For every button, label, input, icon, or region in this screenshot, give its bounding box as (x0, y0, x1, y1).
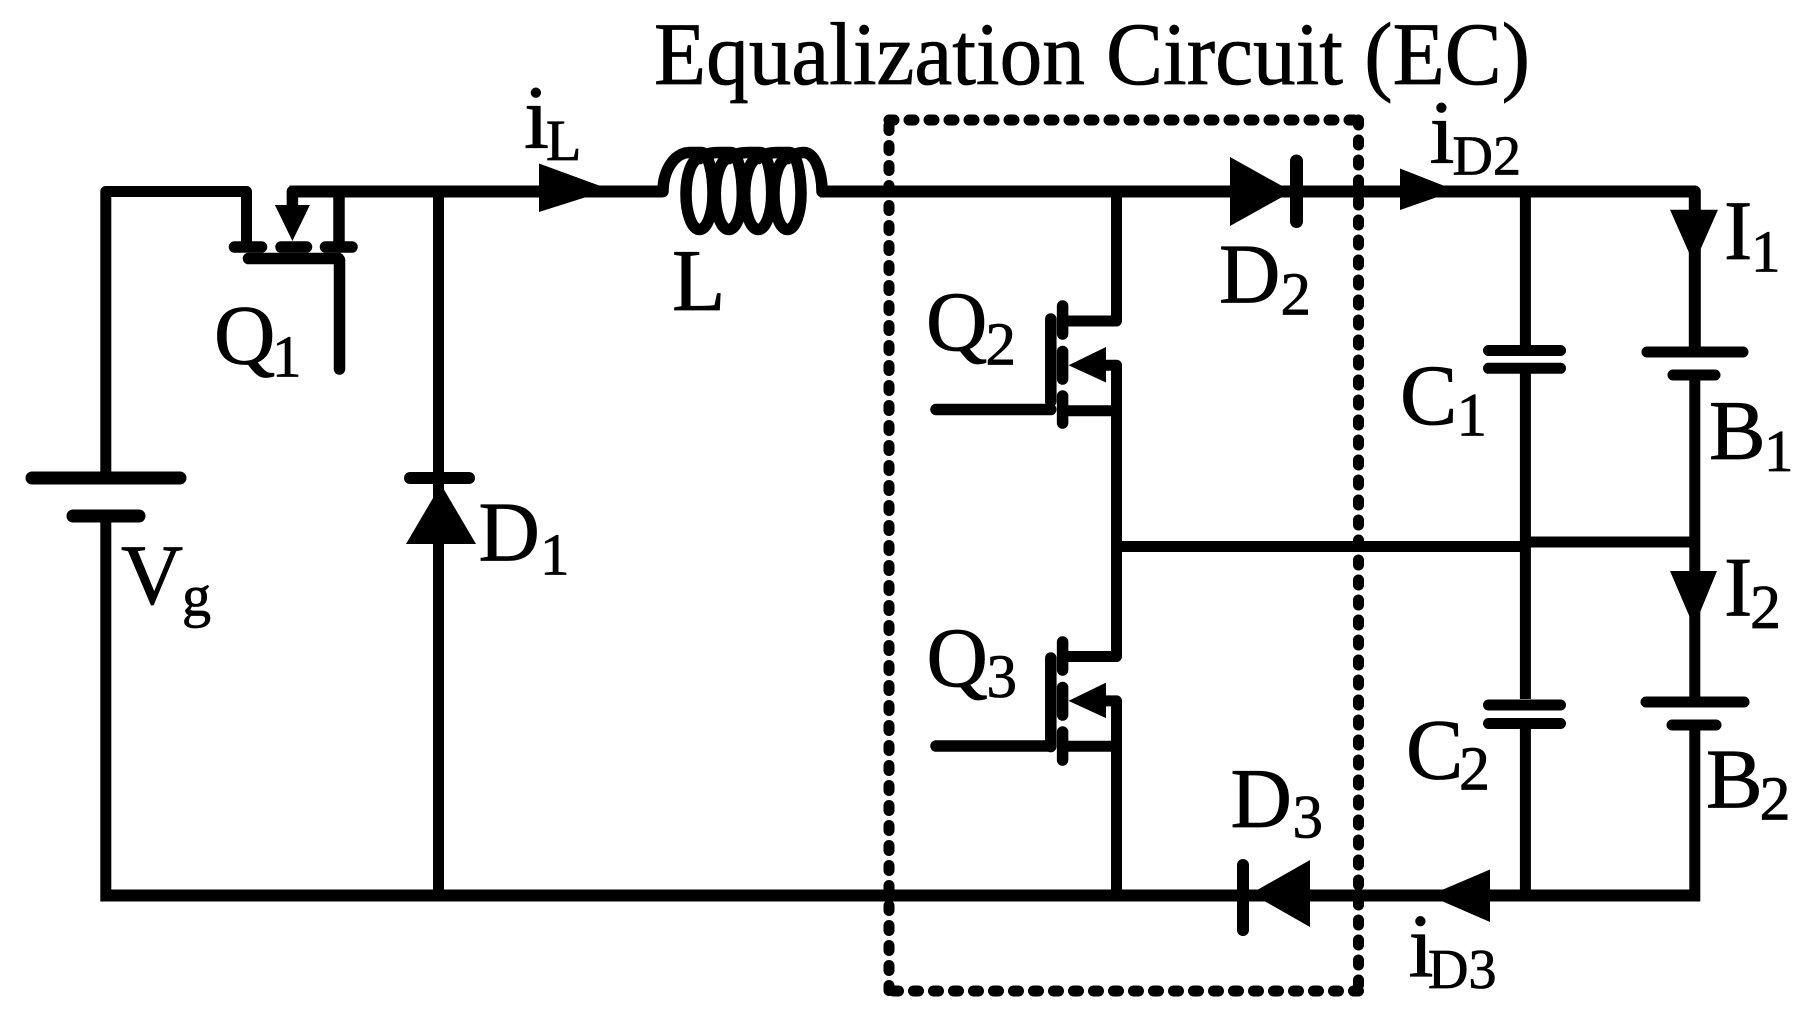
capacitor C1 lower wire to mid node (1520, 373, 1531, 547)
inductor L (663, 152, 822, 229)
svg-text:I: I (1724, 541, 1752, 635)
svg-text:1: 1 (1457, 382, 1488, 449)
wire: B1/I2 junction vertical through mid wire to B2 (1689, 542, 1700, 697)
svg-text:D: D (1231, 752, 1292, 846)
mosfet Q3 source wire down to bottom rail (1063, 746, 1117, 895)
battery Vg (32, 478, 180, 516)
diode D2 (1230, 157, 1292, 226)
svg-text:1: 1 (1764, 418, 1794, 484)
svg-text:I: I (1724, 184, 1752, 278)
svg-text:C: C (1400, 347, 1457, 443)
capacitor C2 (1489, 705, 1561, 724)
svg-text:2: 2 (1281, 262, 1312, 329)
mosfet Q2 (936, 306, 1063, 423)
mosfet Q1 body arrow (275, 205, 310, 241)
mosfet Q2 source wire down to mid node (1063, 411, 1117, 547)
svg-text:D2: D2 (1453, 125, 1521, 187)
svg-text:2: 2 (1459, 736, 1490, 804)
svg-text:C: C (1406, 702, 1463, 798)
capacitor C1 (1489, 351, 1561, 369)
svg-text:i: i (1430, 84, 1455, 183)
capacitor C1 branch wire upper (1520, 192, 1531, 346)
wire: Vg positive to Q1 drain (top-left loop) (106, 192, 247, 475)
capacitor C2 branch wire upper (1520, 542, 1531, 699)
wire: B2 negative down to bottom rail (1689, 730, 1700, 902)
wire: B1 negative to mid node (1689, 380, 1700, 542)
svg-text:V: V (121, 527, 183, 623)
svg-text:2: 2 (1750, 574, 1781, 642)
svg-text:Q: Q (214, 289, 275, 383)
current arrow iD3 (1429, 870, 1490, 923)
wire: bottom rail (ground return) (100, 890, 1695, 902)
diode D1 (freewheel, anode bottom, cathode top) (433, 192, 444, 896)
current arrow iL (539, 164, 610, 213)
mosfet Q3 drain wire from mid node (1063, 547, 1117, 657)
svg-text:3: 3 (987, 644, 1018, 711)
svg-text:2: 2 (986, 312, 1017, 379)
equalization circuit dashed box (889, 120, 1359, 991)
svg-text:L: L (672, 232, 725, 329)
svg-text:1: 1 (272, 324, 302, 390)
svg-text:1: 1 (1751, 219, 1781, 285)
mosfet Q2 drain wire from top rail (1063, 192, 1117, 322)
svg-text:L: L (546, 108, 581, 173)
svg-text:3: 3 (1293, 785, 1324, 852)
battery B1 (1647, 352, 1743, 375)
mosfet Q3 body arrow (1069, 683, 1107, 719)
current arrow I1 (1670, 210, 1718, 264)
svg-text:Q: Q (926, 275, 987, 369)
battery B2 (1646, 702, 1744, 725)
mosfet Q2 body arrow (1069, 347, 1107, 383)
svg-text:D: D (479, 486, 540, 580)
wire: mid node from Q2/Q3 junction to battery midpoint (1117, 541, 1529, 552)
wire: Vg negative down to bottom rail (100, 521, 111, 890)
mosfet Q1 (235, 192, 353, 370)
svg-text:D: D (1219, 228, 1280, 322)
node: top rail from Q1 source to EC and batteries (290, 186, 664, 198)
current arrow iD2 (1400, 169, 1456, 211)
svg-text:Equalization Circuit (EC): Equalization Circuit (EC) (654, 6, 1530, 104)
svg-text:D3: D3 (1428, 939, 1496, 1001)
mosfet Q3 (936, 642, 1063, 760)
svg-text:1: 1 (540, 522, 570, 588)
svg-text:B: B (1709, 384, 1766, 478)
capacitor C2 lower wire to bottom rail (1520, 728, 1531, 895)
diode D3 (on bottom rail, pointing left) (1251, 860, 1310, 927)
svg-text:B: B (1706, 733, 1763, 827)
mosfet Q2 body stub down to source corner (1106, 365, 1117, 410)
svg-text:Q: Q (927, 611, 988, 705)
mosfet Q3 body stub down to source corner (1106, 701, 1117, 746)
current arrow I2 (1670, 571, 1717, 627)
svg-text:g: g (182, 564, 211, 629)
svg-text:2: 2 (1760, 766, 1791, 834)
